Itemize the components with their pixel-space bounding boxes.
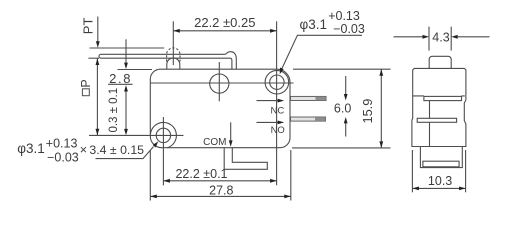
svg-text:×: ×: [80, 143, 87, 157]
svg-text:4.3: 4.3: [432, 30, 449, 44]
dimension PT leader: [96, 17, 100, 48]
hole bottom-left boss arc: [150, 122, 176, 147]
dimension 22.2±0.1 bottom: [163, 179, 276, 183]
terminal COM (L-shape): [224, 148, 267, 169]
lever arm: [99, 52, 236, 70]
side view bar 1: [424, 96, 462, 100]
terminal NC: [291, 96, 327, 100]
terminal NO: [291, 117, 326, 121]
side view step lines: [413, 95, 465, 97]
side view body outline: [412, 68, 466, 146]
NC label arrow: [257, 99, 285, 103]
hole bottom-left: [156, 128, 170, 142]
dimension 27.8: [150, 150, 290, 201]
side view plunger: [429, 56, 451, 68]
lever bottom extension line: [89, 57, 100, 59]
side view internal vertical: [429, 101, 431, 147]
svg-text:27.8: 27.8: [209, 183, 233, 197]
lever free-position line: [90, 47, 165, 49]
□P square glyph: [82, 89, 89, 96]
side view bar 2: [417, 118, 456, 122]
side view base inner tray: [423, 161, 459, 167]
svg-text:+0.13: +0.13: [328, 9, 360, 23]
svg-text:NC: NC: [271, 106, 285, 117]
svg-text:P: P: [79, 79, 93, 87]
hole bottom-left vertical centerline: [162, 117, 164, 185]
plunger dome solid: [167, 58, 180, 69]
center circle: [210, 74, 229, 93]
svg-text:COM: COM: [203, 137, 226, 148]
switch body outline: [150, 69, 290, 148]
svg-text:2.8: 2.8: [109, 71, 132, 86]
NO label arrow: [257, 121, 285, 125]
svg-text:−0.03: −0.03: [333, 22, 365, 36]
svg-text:φ3.1: φ3.1: [300, 17, 328, 32]
dimension 2.8 / 0.3±0.1: [108, 39, 152, 135]
dimension 15.9: [292, 69, 391, 148]
leader φ3.1 bottom-left: [96, 141, 159, 158]
internal horizontal line: [150, 82, 293, 84]
dimension 22.2±0.25 top: [173, 21, 276, 185]
svg-text:PT: PT: [81, 18, 96, 35]
center circle vertical centerline: [218, 62, 220, 101]
plunger dome dashed (free position): [167, 48, 180, 62]
hole top-right boss circle: [265, 70, 289, 94]
dimension 10.3: [412, 150, 465, 192]
svg-text:6.0: 6.0: [334, 101, 351, 115]
dimension □P: [96, 59, 100, 136]
svg-text:NO: NO: [271, 125, 285, 136]
hole bottom-left horizontal centerline: [89, 134, 184, 136]
leader φ3.1 top-right: [280, 35, 362, 74]
side view base block: [420, 147, 462, 168]
svg-text:3.4 ± 0.15: 3.4 ± 0.15: [89, 143, 144, 157]
svg-text:22.2 ±0.1: 22.2 ±0.1: [175, 167, 227, 181]
dimension 6.0: [344, 76, 348, 137]
svg-text:0.3 ± 0.1: 0.3 ± 0.1: [108, 88, 120, 133]
svg-text:φ3.1: φ3.1: [17, 141, 45, 156]
svg-text:+0.13: +0.13: [46, 136, 78, 150]
svg-text:22.2 ±0.25: 22.2 ±0.25: [194, 15, 255, 30]
svg-text:15.9: 15.9: [360, 99, 375, 124]
dimension 4.3: [394, 27, 490, 51]
svg-text:−0.03: −0.03: [47, 151, 79, 165]
svg-text:10.3: 10.3: [428, 174, 452, 188]
COM leader arrow: [229, 122, 233, 147]
hole top-right: [270, 75, 284, 89]
